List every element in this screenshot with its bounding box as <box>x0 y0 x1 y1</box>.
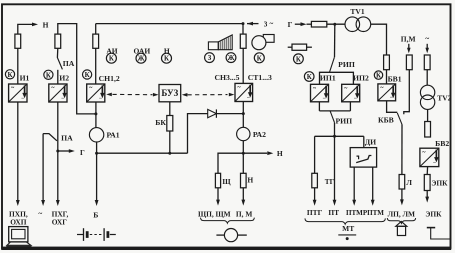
svg-text:3: 3 <box>264 20 268 28</box>
svg-text:ОАИ: ОАИ <box>133 47 150 56</box>
svg-text:К: К <box>164 56 169 63</box>
svg-text:ЭПК: ЭПК <box>425 209 442 218</box>
svg-text:К: К <box>8 72 13 79</box>
svg-text:Ж: Ж <box>228 55 235 62</box>
svg-text:Н: Н <box>277 149 283 158</box>
svg-text:СН1,2: СН1,2 <box>99 74 120 83</box>
svg-text:ИП1: ИП1 <box>320 74 336 83</box>
svg-text:БВ1: БВ1 <box>388 74 402 83</box>
svg-text:Н: Н <box>43 20 49 29</box>
svg-text:ЩП, ЩМ: ЩП, ЩМ <box>198 209 231 218</box>
svg-text:TV2: TV2 <box>437 93 451 102</box>
svg-text:Ж: Ж <box>138 56 145 63</box>
svg-text:КБВ: КБВ <box>378 116 394 125</box>
svg-text:К: К <box>257 55 262 62</box>
svg-text:ОХГ: ОХГ <box>52 218 68 227</box>
svg-text:~: ~ <box>38 209 42 218</box>
svg-text:БУЗ: БУЗ <box>161 88 178 98</box>
svg-text:ИП2: ИП2 <box>353 74 369 83</box>
svg-text:TV1: TV1 <box>350 7 364 16</box>
svg-text:РА1: РА1 <box>106 131 119 140</box>
svg-text:К: К <box>376 73 381 80</box>
svg-text:ПТМРПТМ: ПТМРПТМ <box>346 209 384 217</box>
svg-text:РИП: РИП <box>335 117 352 126</box>
svg-text:Н: Н <box>247 176 253 185</box>
svg-text:ПТ: ПТ <box>328 208 339 217</box>
svg-text:ЭПК: ЭПК <box>431 178 448 187</box>
svg-text:Б: Б <box>93 211 98 220</box>
svg-text:~: ~ <box>425 34 429 43</box>
svg-text:К: К <box>109 56 114 63</box>
svg-text:~: ~ <box>270 20 274 28</box>
svg-text:Щ: Щ <box>222 177 231 186</box>
svg-text:ОХП: ОХП <box>10 218 27 227</box>
svg-text:СН3...5: СН3...5 <box>215 73 240 82</box>
svg-text:БК: БК <box>155 118 166 127</box>
svg-text:К: К <box>85 72 90 79</box>
svg-text:МТ: МТ <box>342 224 354 233</box>
svg-text:К: К <box>307 74 312 81</box>
svg-text:П,М: П,М <box>401 34 416 43</box>
svg-text:ПТГ: ПТГ <box>307 208 323 217</box>
svg-text:РА2: РА2 <box>253 130 266 139</box>
svg-text:П, М: П, М <box>236 209 252 218</box>
svg-text:З: З <box>208 55 212 62</box>
svg-text:ПА: ПА <box>63 59 75 68</box>
svg-text:К: К <box>46 72 51 79</box>
svg-text:СТ1...3: СТ1...3 <box>248 73 272 82</box>
svg-text:БВ2: БВ2 <box>435 139 449 148</box>
svg-text:К: К <box>296 56 301 63</box>
svg-text:РИП: РИП <box>338 60 355 69</box>
svg-text:И2: И2 <box>59 73 69 82</box>
svg-text:Г: Г <box>80 148 85 157</box>
svg-text:ПА: ПА <box>61 133 73 142</box>
svg-text:Л: Л <box>406 178 412 187</box>
svg-text:ДИ: ДИ <box>365 138 376 147</box>
svg-text:Г: Г <box>288 20 293 29</box>
svg-text:ТГ: ТГ <box>325 178 335 186</box>
svg-text:ЛП, ЛМ: ЛП, ЛМ <box>388 209 415 218</box>
svg-text:И1: И1 <box>20 73 30 82</box>
